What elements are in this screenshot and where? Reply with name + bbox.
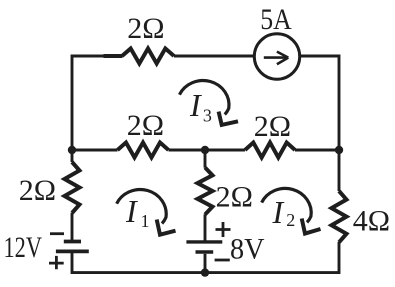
svg-text:12V: 12V bbox=[4, 231, 43, 264]
svg-text:I: I bbox=[189, 87, 202, 123]
svg-text:2Ω: 2Ω bbox=[127, 12, 164, 45]
svg-text:5A: 5A bbox=[260, 3, 292, 36]
svg-text:2Ω: 2Ω bbox=[254, 110, 291, 143]
svg-text:I: I bbox=[125, 193, 138, 229]
svg-text:2: 2 bbox=[286, 210, 295, 230]
svg-text:2Ω: 2Ω bbox=[216, 181, 253, 214]
svg-text:1: 1 bbox=[141, 211, 150, 231]
svg-text:8V: 8V bbox=[230, 233, 265, 266]
svg-text:3: 3 bbox=[203, 106, 212, 126]
svg-text:4Ω: 4Ω bbox=[353, 205, 390, 238]
svg-text:I: I bbox=[272, 194, 285, 230]
svg-text:2Ω: 2Ω bbox=[19, 174, 56, 207]
svg-text:2Ω: 2Ω bbox=[127, 109, 164, 142]
